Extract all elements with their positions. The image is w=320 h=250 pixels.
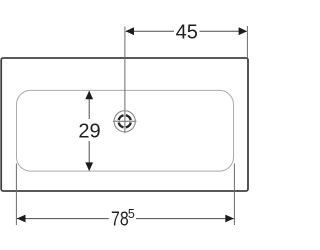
svg-text:45: 45 xyxy=(176,21,198,43)
svg-text:78: 78 xyxy=(111,208,129,230)
svg-text:29: 29 xyxy=(78,120,100,142)
svg-text:5: 5 xyxy=(128,207,135,221)
